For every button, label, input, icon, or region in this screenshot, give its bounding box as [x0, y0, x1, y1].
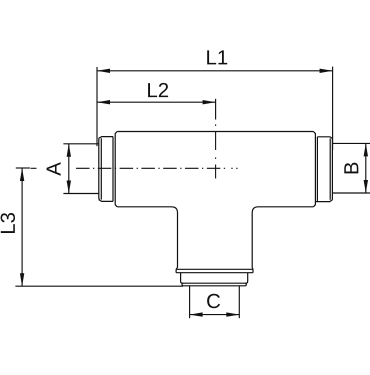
body top line	[117, 131, 313, 133]
arrowhead B up	[364, 143, 368, 156]
left collet chamfer bottom	[99, 200, 113, 202]
right collet chamfer bottom	[315, 200, 332, 202]
bottom collar lip top	[176, 268, 253, 270]
left collet face inner line	[100, 138, 102, 199]
right collet left edge	[316, 137, 318, 202]
body bottom left segment with corner into stem	[117, 207, 177, 269]
right end face line	[331, 138, 333, 199]
label C	[207, 294, 220, 308]
bottom collar lip left side	[175, 269, 177, 272]
arrowhead L2 left	[97, 100, 110, 104]
extension tick for L2 (center axis, solid)	[215, 99, 217, 120]
centerline vertical dot 2	[215, 157, 217, 159]
centerline vertical dash 2	[215, 165, 217, 179]
bottom collar left side	[181, 273, 183, 284]
centerline tail dots	[231, 167, 232, 169]
left collet face outer line	[99, 138, 100, 199]
dimension L2 line	[97, 101, 216, 103]
arrowhead L1 right	[320, 69, 333, 73]
extension line right (L1 end, right end face)	[332, 67, 334, 150]
centerline vertical dash 1	[215, 131, 217, 150]
right collet chamfer top	[317, 137, 332, 139]
label B	[344, 163, 358, 174]
right collet face inner line	[329, 138, 331, 199]
extension line B top	[333, 142, 370, 144]
extension line A bottom	[63, 193, 99, 195]
label L1	[207, 50, 227, 64]
arrowhead L1 left	[97, 69, 110, 73]
label A	[47, 162, 61, 176]
right body edge + chamfers	[313, 132, 315, 207]
centerline vertical dot 1	[215, 124, 217, 126]
extension line C left	[189, 286, 191, 318]
dimension L3 line	[21, 168, 23, 286]
extension line left (L1/L2 origin, left end face)	[96, 67, 98, 146]
centerline horizontal left short dash	[31, 167, 37, 169]
bottom collar right side	[246, 273, 248, 284]
arrowhead C right	[226, 312, 239, 316]
extension line C right	[238, 286, 240, 318]
arrowhead A up	[67, 144, 71, 157]
left body edge + chamfers	[115, 132, 117, 207]
body bottom right segment with corner into stem	[252, 207, 313, 269]
bottom collar second line	[176, 272, 253, 274]
arrowhead B down	[364, 180, 368, 193]
arrowhead A down	[67, 181, 71, 194]
extension tick L3 top (axis level)	[16, 167, 30, 169]
bottom collar lower line	[183, 282, 246, 284]
label L2	[148, 83, 168, 97]
extension line B bottom	[333, 192, 370, 194]
dimension C line	[190, 314, 240, 316]
bottom collar lip right side	[252, 269, 254, 272]
left collet right edge	[112, 137, 114, 202]
left collet chamfer top	[99, 137, 113, 139]
arrowhead L3 down	[20, 273, 24, 286]
label L3	[1, 213, 15, 233]
dimension A line	[68, 144, 70, 194]
dimension L1 line	[97, 70, 333, 72]
centerline horizontal (dash-dot)	[76, 167, 226, 169]
arrowhead C left	[190, 312, 203, 316]
fitting body outline	[99, 132, 333, 286]
extension line L3 bottom	[15, 285, 183, 287]
bottom end face disc	[182, 283, 246, 286]
dimension B line	[365, 143, 367, 193]
extension line A top	[63, 143, 99, 145]
arrowhead L3 up	[20, 168, 24, 181]
arrowhead L2 right	[203, 100, 216, 104]
